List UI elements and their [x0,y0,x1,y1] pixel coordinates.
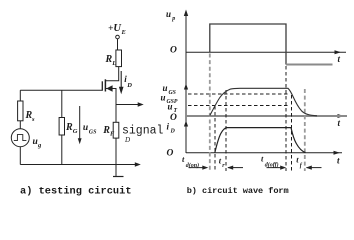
svg-text:u: u [161,93,166,103]
svg-text:GS: GS [89,129,97,135]
svg-text:D: D [170,129,176,135]
svg-text:E: E [121,29,127,36]
svg-text:u: u [163,83,168,93]
svg-text:O: O [167,149,174,159]
svg-text:u: u [33,137,38,147]
svg-text:+U: +U [108,23,122,34]
svg-text:GS: GS [169,90,176,96]
svg-text:d(on): d(on) [186,162,199,169]
svg-text:L: L [111,60,116,67]
svg-text:a) testing circuit: a) testing circuit [20,185,132,197]
svg-text:s: s [31,116,35,123]
svg-text:O: O [170,46,177,56]
svg-text:D: D [124,136,130,144]
svg-text:u: u [83,123,88,133]
svg-text:F: F [110,131,115,138]
svg-text:u: u [168,102,173,112]
svg-text:D: D [126,82,132,89]
svg-text:u: u [166,9,171,19]
svg-text:b) circuit wave form: b) circuit wave form [187,186,289,196]
svg-text:R: R [65,122,73,133]
svg-text:p: p [171,16,175,22]
svg-text:O: O [170,113,177,123]
svg-text:d(off): d(off) [265,161,279,168]
svg-text:G: G [73,128,78,135]
svg-text:R: R [105,54,113,65]
